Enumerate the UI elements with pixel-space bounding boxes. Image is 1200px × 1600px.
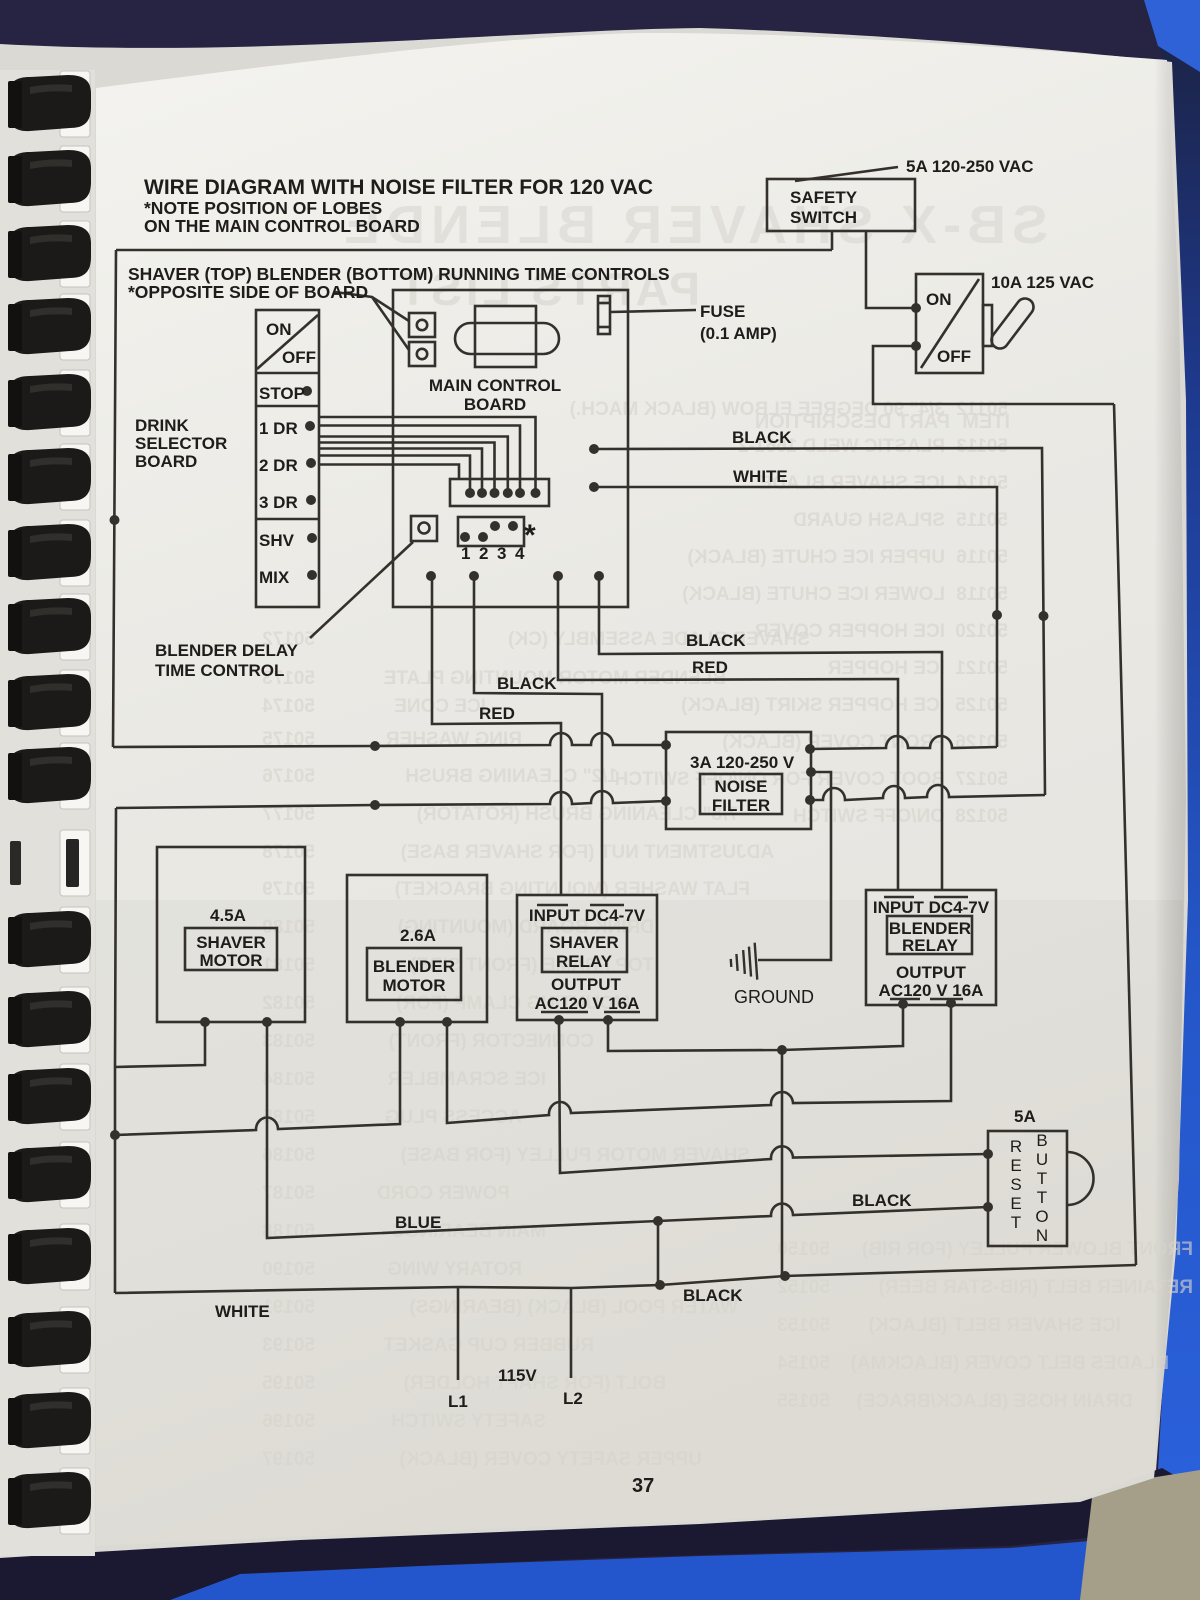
wire ribbon 7: [319, 465, 459, 480]
svg-text:BLACK: BLACK: [683, 1286, 743, 1305]
carpet right blue strip: [1100, 0, 1200, 1600]
svg-text:50127: 50127: [955, 769, 1008, 790]
shaver motor M1: [157, 847, 305, 1022]
svg-text:BOARD: BOARD: [464, 395, 526, 414]
node board out B: [469, 571, 479, 581]
blender relay text: [873, 898, 990, 1000]
svg-text:RELAY: RELAY: [556, 952, 613, 971]
wire fuse to label: [610, 310, 696, 312]
svg-text:2: 2: [479, 544, 488, 563]
svg-text:ICE CONE: ICE CONE: [394, 696, 486, 717]
svg-text:ON: ON: [926, 290, 952, 309]
node on-off upper terminal: [911, 303, 921, 313]
svg-text:(0.1 AMP): (0.1 AMP): [700, 324, 777, 343]
wire red to shaver relay: [432, 576, 561, 895]
wire blender motor to blender relay output: [447, 1003, 951, 1123]
wire safety switch to on-off switch: [866, 231, 916, 308]
wire ribbon 4: [319, 443, 495, 490]
svg-text:N: N: [1036, 1226, 1048, 1245]
svg-text:SWITCH: SWITCH: [790, 208, 857, 227]
node filter in upper: [661, 740, 671, 750]
svg-text:50196: 50196: [262, 1411, 315, 1432]
node white bus junction: [992, 610, 1002, 620]
blender motor M2: [347, 875, 487, 1022]
connector J1 on board: [450, 479, 549, 506]
running time control lower: [409, 342, 435, 366]
svg-text:E: E: [1010, 1156, 1021, 1175]
title text: [144, 176, 653, 236]
node filter out lower: [805, 795, 815, 805]
main control board: [393, 290, 628, 607]
svg-text:BLACK: BLACK: [497, 674, 557, 693]
svg-text:37: 37: [632, 1475, 654, 1497]
svg-text:50176: 50176: [262, 766, 315, 787]
wire blue junction drop: [657, 1221, 660, 1285]
svg-text:50183: 50183: [262, 1031, 315, 1052]
fuse label: [700, 302, 777, 343]
node STOP: [302, 386, 312, 396]
svg-text:ROTARY WING: ROTARY WING: [387, 1259, 522, 1280]
blender relay output underlines: [890, 998, 963, 1001]
svg-text:BLENDER: BLENDER: [373, 957, 455, 976]
svg-text:5A: 5A: [1014, 1107, 1036, 1126]
svg-text:SB-X SHAVER BLENDE: SB-X SHAVER BLENDE: [338, 195, 1048, 255]
node board out C: [553, 571, 563, 581]
svg-text:BLACK: BLACK: [852, 1191, 912, 1210]
spiral coil 3: [8, 221, 91, 287]
svg-text:50182: 50182: [262, 993, 315, 1014]
shaver relay output underlines: [541, 1011, 640, 1014]
svg-text:WHITE: WHITE: [733, 467, 788, 486]
node shaver motor out1: [200, 1017, 210, 1027]
wire safety switch left drop: [831, 231, 834, 250]
wire ribbon 3: [319, 437, 508, 490]
node shaver relay out1: [554, 1015, 564, 1025]
node border-junction: [110, 1130, 120, 1140]
svg-text:50186: 50186: [262, 1145, 315, 1166]
svg-text:50120: 50120: [955, 621, 1008, 642]
svg-text:50150: 50150: [777, 1239, 830, 1260]
svg-text:BOARD: BOARD: [135, 452, 197, 471]
node J1 pin1: [465, 488, 475, 498]
carpet bottom blue: [170, 1528, 1200, 1600]
ground symbol: [730, 943, 758, 982]
svg-text:50178: 50178: [262, 842, 315, 863]
spiral coil 12: [8, 907, 91, 973]
wire black to blender relay: [599, 576, 942, 890]
svg-text:UPPER ICE CHUTE (BLACK): UPPER ICE CHUTE (BLACK): [687, 547, 945, 568]
svg-text:SELECTOR: SELECTOR: [135, 434, 227, 453]
svg-text:3A 120-250 V: 3A 120-250 V: [690, 753, 795, 772]
tan floor patch bottom-right: [1080, 1470, 1200, 1600]
node blender motor out1: [395, 1017, 405, 1027]
spiral coil 11: [10, 830, 90, 896]
on-off switch text: [926, 290, 971, 366]
svg-text:BLENDER DELAY: BLENDER DELAY: [155, 641, 299, 660]
spiral coil 18: [8, 1388, 91, 1454]
svg-text:ICE HOPPER: ICE HOPPER: [828, 658, 945, 679]
svg-text:ICE HOPPER SKIRT (BLACK): ICE HOPPER SKIRT (BLACK): [681, 695, 945, 716]
wire shaver relay out1 run: [559, 1020, 988, 1173]
svg-text:GROUND: GROUND: [734, 987, 814, 1007]
bottom dark shadow band: [0, 1468, 1200, 1600]
node MIX: [307, 570, 317, 580]
main control board label: [429, 376, 561, 414]
svg-text:E: E: [1010, 1194, 1021, 1213]
wire filter to ground: [758, 772, 831, 960]
reset button SW3: [988, 1131, 1094, 1246]
wire shaver relay out2 run: [608, 1004, 903, 1051]
svg-text:SHAVER (TOP) BLENDER (BOTTOM): SHAVER (TOP) BLENDER (BOTTOM) RUNNING TI…: [128, 264, 670, 284]
svg-text:L2: L2: [563, 1389, 583, 1408]
svg-text:OUTPUT: OUTPUT: [896, 963, 967, 982]
bleed-through mirrored parts list lower left: [262, 629, 810, 1470]
node 2DR: [306, 458, 316, 468]
wire blue: [267, 1022, 988, 1238]
spiral coil 5: [8, 370, 91, 436]
node feed upper junction: [370, 741, 380, 751]
svg-text:3/4" 90 DEGREE ELBOW (BLACK MA: 3/4" 90 DEGREE ELBOW (BLACK MACH.): [570, 399, 945, 420]
wire black to shaver relay: [474, 576, 602, 895]
node black bus junction: [1039, 611, 1049, 621]
svg-text:1 DR: 1 DR: [259, 419, 298, 438]
svg-text:BLADES BELT COVER (BLACKMA): BLADES BELT COVER (BLACKMA): [851, 1353, 1169, 1374]
svg-text:O: O: [1035, 1207, 1048, 1226]
svg-text:RED: RED: [692, 658, 728, 677]
wire mid junction drop: [781, 1050, 784, 1276]
shaver relay input overbars: [537, 904, 624, 907]
noise filter FL1: [666, 732, 811, 829]
svg-text:S: S: [1010, 1175, 1021, 1194]
svg-text:SHAVER: SHAVER: [196, 933, 266, 952]
wire ribbon 1: [319, 417, 536, 489]
drink selector board: [256, 310, 319, 607]
svg-text:DRAIN HOSE (BLACK/BRACE): DRAIN HOSE (BLACK/BRACE): [856, 1391, 1133, 1412]
blender delay time control: [411, 516, 437, 541]
node board white terminal: [589, 482, 599, 492]
wire shaver motor to border: [115, 1022, 205, 1067]
svg-text:ON/OFF SWITCH: ON/OFF SWITCH: [793, 806, 945, 827]
svg-text:TIME CONTROL: TIME CONTROL: [155, 661, 284, 680]
svg-text:115V: 115V: [498, 1366, 537, 1385]
wire red to blender relay: [558, 576, 898, 890]
connector J2 pin numbers: [461, 544, 525, 563]
svg-text:U: U: [1036, 1150, 1048, 1169]
node reset upper terminal: [983, 1149, 993, 1159]
drink selector board label: [135, 416, 227, 471]
svg-text:50187: 50187: [262, 1183, 315, 1204]
node filter out upper: [805, 744, 815, 754]
node on-off lower terminal: [911, 341, 921, 351]
svg-text:50184: 50184: [262, 1069, 315, 1090]
svg-text:OUTPUT: OUTPUT: [551, 975, 622, 994]
svg-text:1/2" CLEANING BRUSH: 1/2" CLEANING BRUSH: [405, 766, 618, 787]
svg-text:50121: 50121: [955, 658, 1008, 679]
node reset lower terminal: [983, 1202, 993, 1212]
drink selector text: [259, 320, 316, 587]
spiral coil 19: [8, 1468, 91, 1534]
svg-text:ON: ON: [266, 320, 292, 339]
svg-text:OFF: OFF: [937, 347, 971, 366]
node filter in lower: [661, 796, 671, 806]
svg-text:RELAY: RELAY: [902, 936, 959, 955]
fuse F1: [598, 296, 610, 334]
svg-text:3 DR: 3 DR: [259, 493, 298, 512]
node bottom junction 2: [780, 1271, 790, 1281]
node shaver motor out2: [262, 1017, 272, 1027]
svg-text:SHAVER BLADE ASSEMBLY: SHAVER BLADE ASSEMBLY (CK): [508, 629, 810, 650]
svg-text:5A 120-250 VAC: 5A 120-250 VAC: [906, 157, 1034, 176]
node mid junction: [777, 1045, 787, 1055]
svg-text:*: *: [524, 519, 536, 552]
svg-text:B: B: [1036, 1131, 1047, 1150]
wire L2 stub: [570, 1288, 573, 1378]
shaver motor text: [196, 906, 266, 970]
spiral coil 9: [8, 670, 91, 736]
spiral binding area base: [0, 70, 95, 1556]
svg-text:RED: RED: [479, 704, 515, 723]
svg-text:50126: 50126: [955, 732, 1008, 753]
blender relay input overbars: [884, 896, 968, 899]
node filter out mid: [806, 767, 816, 777]
svg-text:ADJUSTMENT NUT (FOR SHAVER BAS: ADJUSTMENT NUT (FOR SHAVER BASE): [401, 842, 774, 863]
node on left border: [110, 515, 120, 525]
spiral coil 2: [8, 146, 91, 212]
svg-text:FRONT BLOWER PULLEY (FOR RIB): FRONT BLOWER PULLEY (FOR RIB): [862, 1239, 1193, 1260]
safety switch text: [790, 188, 858, 227]
svg-text:WIRE DIAGRAM WITH NOISE FILTER: WIRE DIAGRAM WITH NOISE FILTER FOR 120 V…: [144, 176, 653, 199]
blender delay leader line: [310, 542, 413, 638]
svg-text:OFF: OFF: [282, 348, 316, 367]
spiral coil 6: [8, 444, 91, 510]
bleed-through mirrored headline from reverse page: [338, 195, 1048, 315]
on-off toggle switch S2: [916, 274, 983, 373]
svg-text:LOWER ICE CHUTE (BLACK): LOWER ICE CHUTE (BLACK): [682, 584, 945, 605]
node blue junction: [653, 1216, 663, 1226]
svg-text:INPUT DC4-7V: INPUT DC4-7V: [529, 906, 646, 925]
svg-text:AC120 V 16A: AC120 V 16A: [535, 994, 640, 1013]
spiral coil 14: [8, 1064, 91, 1130]
node bottom junction 1: [655, 1280, 665, 1290]
blender delay label: [155, 641, 299, 680]
svg-text:50179: 50179: [262, 879, 315, 900]
noise filter text: [690, 753, 795, 815]
toggle lever: [992, 299, 1034, 349]
wire L1 stub: [457, 1287, 460, 1380]
wire black upper: [594, 448, 1045, 795]
svg-text:ON THE MAIN CONTROL BOARD: ON THE MAIN CONTROL BOARD: [144, 216, 420, 236]
svg-text:MIX: MIX: [259, 568, 290, 587]
connector J2 on board: [458, 517, 524, 546]
svg-text:WHITE: WHITE: [215, 1302, 270, 1321]
blender relay K2: [866, 890, 996, 1005]
svg-text:50113: 50113: [956, 436, 1008, 457]
svg-text:R: R: [1010, 1137, 1022, 1156]
spiral coil 10: [8, 743, 91, 809]
wire blender motor to border: [115, 1022, 400, 1135]
svg-text:RUBBER CUP GASKET: RUBBER CUP GASKET: [383, 1335, 594, 1356]
svg-text:10A 125 VAC: 10A 125 VAC: [991, 273, 1094, 292]
safety switch leader line: [795, 167, 898, 181]
node J1 pin2: [477, 488, 487, 498]
svg-text:50112: 50112: [956, 399, 1008, 420]
svg-text:SPLASH GUARD: SPLASH GUARD: [793, 510, 945, 531]
wire on-off to right bus: [873, 346, 1114, 404]
svg-text:T: T: [1011, 1213, 1021, 1232]
node 1DR: [305, 421, 315, 431]
wire ribbon 5: [319, 449, 482, 490]
blender motor text: [373, 926, 455, 995]
toggle lever base: [983, 305, 992, 346]
stadium component on board: [455, 323, 559, 354]
svg-text:UPPER SAFETY COVER (BLACK): UPPER SAFETY COVER (BLACK): [399, 1449, 702, 1470]
running time controls leader lines: [335, 292, 409, 350]
node feed lower junction: [370, 800, 380, 810]
wire outer border left lower: [115, 808, 116, 1293]
svg-text:FLAT WASHER (MOUNTING BRACKET): FLAT WASHER (MOUNTING BRACKET): [395, 879, 750, 900]
svg-text:3: 3: [497, 544, 506, 563]
svg-text:50181: 50181: [262, 955, 315, 976]
component rect on board: [475, 306, 536, 367]
shaver relay K1: [517, 895, 657, 1020]
node blender relay out1: [898, 999, 908, 1009]
svg-text:50197: 50197: [262, 1449, 315, 1470]
svg-text:50153: 50153: [777, 1315, 830, 1336]
svg-text:7/8" CLEANING BRUSH (ROTATOR): 7/8" CLEANING BRUSH (ROTATOR): [417, 804, 738, 825]
svg-text:INPUT DC4-7V: INPUT DC4-7V: [873, 898, 990, 917]
shaver relay text: [529, 906, 646, 1013]
svg-text:POWER CORD: POWER CORD: [377, 1183, 510, 1204]
running time control upper: [409, 313, 435, 337]
svg-text:CONNECTOR (FRONT): CONNECTOR (FRONT): [389, 1031, 594, 1052]
svg-text:50128: 50128: [955, 806, 1008, 827]
wire border to noise filter upper: [113, 733, 666, 747]
wire ribbon 2: [319, 426, 520, 490]
bright carpet corner top-right: [1144, 0, 1200, 72]
page right-edge shading: [960, 60, 1186, 1490]
svg-text:50115: 50115: [956, 510, 1008, 531]
wire border to noise filter lower: [116, 791, 666, 808]
bleed-through mirrored parts list lower right: [777, 1239, 1193, 1412]
node SHV: [307, 533, 317, 543]
node shaver relay out2: [603, 1015, 613, 1025]
node 3DR: [306, 495, 316, 505]
svg-text:*OPPOSITE SIDE OF BOARD: *OPPOSITE SIDE OF BOARD: [128, 282, 368, 302]
node J2 pin2: [478, 532, 488, 542]
svg-text:STOP: STOP: [259, 384, 305, 403]
svg-text:50118: 50118: [956, 584, 1008, 605]
svg-text:BLACK: BLACK: [732, 428, 792, 447]
spiral coil 1: [8, 71, 91, 137]
svg-text:*NOTE POSITION OF LOBES: *NOTE POSITION OF LOBES: [144, 198, 382, 218]
svg-text:4.5A: 4.5A: [210, 906, 246, 925]
reset button text: [1010, 1131, 1049, 1245]
svg-text:1: 1: [461, 544, 470, 563]
spiral coil 15: [8, 1142, 91, 1208]
spiral coil 8: [8, 594, 91, 660]
spiral coil 7: [8, 520, 91, 586]
svg-text:ICE SCRAMBLER: ICE SCRAMBLER: [387, 1069, 546, 1090]
svg-text:NOISE: NOISE: [715, 777, 768, 796]
node J2 pin3: [490, 521, 500, 531]
svg-text:2 DR: 2 DR: [259, 456, 298, 475]
node J1 pin5: [515, 488, 525, 498]
svg-text:MOTOR: MOTOR: [383, 976, 446, 995]
svg-text:MOTOR: MOTOR: [200, 951, 263, 970]
subtitle running time controls: [128, 264, 670, 302]
safety switch S1: [767, 179, 915, 231]
svg-text:50114: 50114: [956, 473, 1008, 494]
svg-text:SAFETY SWITCH: SAFETY SWITCH: [391, 1411, 546, 1432]
wire right bus vertical: [1114, 404, 1136, 1265]
spiral coil 16: [8, 1224, 91, 1290]
svg-text:50125: 50125: [955, 695, 1008, 716]
svg-text:BLACK: BLACK: [686, 631, 746, 650]
node J1 pin3: [490, 488, 500, 498]
svg-text:ICE SHAVER BELT (BLACK): ICE SHAVER BELT (BLACK): [868, 1315, 1121, 1336]
spiral coil 4: [8, 294, 91, 360]
svg-text:SHV: SHV: [259, 531, 295, 550]
svg-text:BLUE: BLUE: [395, 1213, 441, 1232]
bleed-through mirrored parts list upper right: [570, 399, 1010, 827]
svg-text:FUSE: FUSE: [700, 302, 745, 321]
svg-text:50190: 50190: [262, 1259, 315, 1280]
svg-text:50193: 50193: [262, 1335, 315, 1356]
svg-text:AC120 V 16A: AC120 V 16A: [879, 981, 984, 1000]
spiral coil 13: [8, 987, 91, 1053]
wire outer border left upper: [113, 250, 116, 747]
svg-text:RETAINER BELT (RIB-STAR BEER): RETAINER BELT (RIB-STAR BEER): [878, 1277, 1193, 1298]
svg-text:T: T: [1037, 1188, 1047, 1207]
wire black to noise filter: [811, 785, 1045, 800]
svg-text:FILTER: FILTER: [712, 796, 770, 815]
wire white to noise filter: [810, 736, 997, 749]
wire ribbon 6: [319, 456, 470, 490]
page lower shading: [96, 900, 1183, 1546]
spiral coil 17: [8, 1307, 91, 1373]
svg-text:2.6A: 2.6A: [400, 926, 436, 945]
svg-text:50154: 50154: [777, 1353, 830, 1374]
svg-text:50155: 50155: [777, 1391, 830, 1412]
node blender motor out2: [442, 1017, 452, 1027]
node board out D: [594, 571, 604, 581]
node blender relay out2: [946, 998, 956, 1008]
node board out A: [426, 571, 436, 581]
node board black terminal: [589, 444, 599, 454]
wire white upper: [594, 487, 997, 747]
svg-text:DRINK: DRINK: [135, 416, 190, 435]
svg-text:SAFETY: SAFETY: [790, 188, 858, 207]
svg-text:L1: L1: [448, 1392, 468, 1411]
wire outer border top: [116, 249, 832, 252]
node J1 pin6: [531, 488, 541, 498]
svg-text:50174: 50174: [262, 696, 315, 717]
node J1 pin4: [503, 488, 513, 498]
node J2 pin1: [460, 532, 470, 542]
svg-text:SHAVER: SHAVER: [549, 933, 619, 952]
svg-text:50195: 50195: [262, 1373, 315, 1394]
svg-text:T: T: [1037, 1169, 1047, 1188]
svg-text:MAIN CONTROL: MAIN CONTROL: [429, 376, 561, 395]
node J2 pin4: [508, 521, 518, 531]
wire bottom bus: [115, 1265, 1136, 1293]
svg-text:50116: 50116: [956, 547, 1008, 568]
